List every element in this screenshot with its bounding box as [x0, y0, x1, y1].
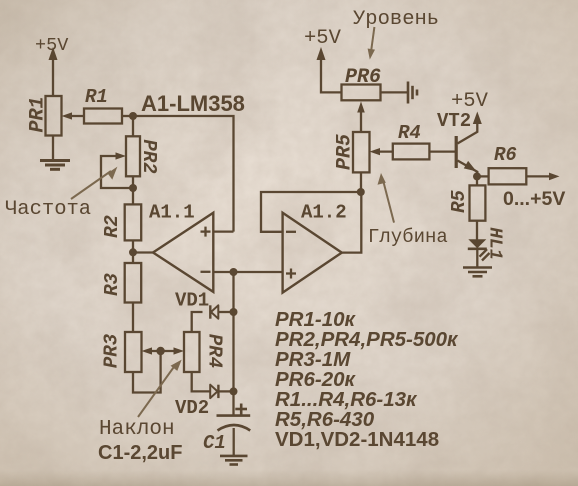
potentiometer PR6 [342, 85, 381, 101]
node A1.1 output junction [129, 248, 137, 256]
wire PR2 wiper loop to bottom node [101, 152, 133, 188]
wire PR5 wiper to R4 (arrow) [370, 148, 393, 155]
resistor R4 [393, 144, 430, 160]
pointer arrow Частота [71, 167, 117, 199]
node VD1 junction [230, 308, 238, 316]
node shared input [230, 268, 238, 276]
transistor VT2 (NPN) [456, 123, 477, 177]
wire A1.1 +input stub [213, 230, 233, 232]
+5V arrow (middle) [317, 47, 342, 92]
svg-text:PR3: PR3 [101, 333, 123, 368]
resistor R5 [470, 185, 486, 220]
svg-text:Частота: Частота [5, 198, 91, 221]
resistor R3 [125, 263, 142, 303]
wire R6 to output arrow [526, 173, 559, 181]
node VD2 junction [230, 387, 238, 395]
pointer arrow Наклон [138, 360, 182, 417]
svg-text:R3: R3 [101, 273, 123, 296]
wire PR5 bottom to node [360, 172, 362, 192]
svg-text:PR5: PR5 [333, 134, 356, 170]
diode VD1 (pointing left) [210, 305, 218, 318]
potentiometer PR1 [46, 96, 62, 136]
svg-text:R2: R2 [101, 215, 123, 238]
wire node to A1.1 +input (top run) [133, 116, 234, 232]
svg-text:0...+5V: 0...+5V [503, 188, 565, 210]
wire PR4 top to VD1 [192, 312, 203, 332]
+5V arrow (top-left) [49, 47, 58, 96]
wire A1.1 -input to A1.2 +input [213, 271, 282, 273]
svg-text:Глубина: Глубина [368, 226, 448, 248]
wire PR4 bottom to VD2 [192, 372, 211, 391]
capacitor C1 [217, 416, 251, 431]
svg-text:PR1: PR1 [26, 96, 49, 132]
wire A1.2 output up [342, 192, 362, 253]
svg-text:VD2: VD2 [175, 397, 209, 419]
pin - of A1.1 [201, 271, 211, 273]
resistor R2 [125, 204, 142, 240]
node R1/PR2 junction [129, 112, 137, 120]
capacitor C1 polarity + [235, 404, 247, 415]
svg-text:VT2: VT2 [437, 110, 471, 132]
wire PR2 bottom [132, 176, 134, 204]
node PR2/R2 junction [129, 184, 137, 192]
svg-text:VD1: VD1 [175, 290, 209, 312]
wire node down to PR2 [132, 116, 134, 136]
wire VD2 to node [218, 390, 233, 392]
svg-text:C1-2,2uF: C1-2,2uF [98, 442, 182, 464]
wire R2 to R3 [132, 241, 134, 264]
wire PR6 wiper down to PR5 (arrow up) [357, 102, 365, 133]
pointer arrow Уровень [368, 27, 375, 60]
LED HL1 [468, 239, 490, 260]
node wiper junction [156, 347, 164, 355]
wire R5 to HL1 [476, 221, 478, 240]
potentiometer PR5 [353, 132, 370, 172]
wire C1 to ground [233, 428, 235, 455]
potentiometer PR3 [125, 332, 142, 372]
resistor R1 [84, 109, 122, 124]
svg-text:Уровень: Уровень [353, 8, 439, 31]
svg-text:A1.2: A1.2 [301, 202, 347, 224]
svg-text:A1.1: A1.1 [149, 202, 195, 224]
wire PR3 bottom loop to wiper node [133, 351, 161, 393]
op-amp A1.2 (points right) [283, 213, 342, 293]
wire R3 to PR3 [132, 303, 134, 333]
ground under HL1 [463, 268, 492, 277]
op-amp A1.1 (points left) [153, 213, 213, 292]
svg-text:R4: R4 [398, 122, 421, 144]
ground right of PR6 (rotated) [408, 82, 417, 104]
resistor R6 [489, 168, 527, 184]
svg-text:R1: R1 [85, 86, 108, 108]
svg-text:PR2: PR2 [138, 139, 160, 173]
svg-text:A1-LM358: A1-LM358 [141, 91, 245, 116]
wire R1 to PR1 wiper (arrow) [62, 112, 85, 119]
svg-text:+5V: +5V [451, 90, 489, 113]
wire HL1 to ground [476, 249, 478, 267]
svg-text:Наклон: Наклон [99, 418, 175, 441]
svg-text:R6: R6 [494, 144, 517, 166]
pointer arrow Глубина [378, 173, 395, 223]
svg-text:PR4: PR4 [203, 334, 225, 368]
wire R1 right to node [122, 115, 133, 117]
svg-text:HL1: HL1 [484, 227, 504, 259]
potentiometer PR2 [126, 136, 140, 176]
+5V arrow (VT2 collector) [473, 112, 482, 125]
svg-text:R5: R5 [448, 190, 470, 213]
potentiometer PR4 [184, 332, 200, 372]
wire PR1 bottom to ground [52, 136, 54, 160]
pin + of A1.2 [286, 269, 296, 279]
pin + of A1.1 [201, 227, 211, 237]
node emitter junction [473, 172, 481, 180]
pin - of A1.2 [286, 231, 296, 233]
wire A1.1 output [133, 251, 153, 253]
svg-text:PR6: PR6 [345, 66, 381, 89]
wire node to R6 [477, 175, 489, 177]
wire R4 to VT2 base [429, 150, 456, 152]
wire node down to R5 [476, 176, 478, 185]
wire inverting bus (vertical) [232, 272, 234, 415]
svg-text:C1: C1 [203, 432, 226, 454]
ground under C1 [220, 456, 248, 465]
wire VD1 to node [218, 311, 234, 313]
svg-text:VD1,VD2-1N4148: VD1,VD2-1N4148 [275, 428, 439, 451]
svg-text:+5V: +5V [304, 27, 342, 50]
ground under PR1 [40, 161, 70, 170]
wire PR3 wiper / PR4 wiper (double arrow) [142, 347, 185, 354]
wire PR6 right to ground [381, 91, 408, 93]
diode VD2 (pointing right) [210, 385, 218, 398]
wire A1.2 feedback loop [261, 192, 361, 232]
node feedback junction [357, 188, 365, 196]
